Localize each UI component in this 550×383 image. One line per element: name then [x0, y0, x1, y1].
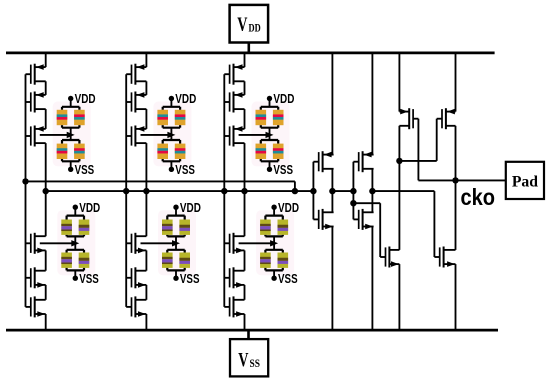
svg-text:VSS: VSS	[278, 272, 298, 286]
svg-text:VDD: VDD	[79, 201, 100, 215]
svg-text:VDD: VDD	[75, 92, 96, 106]
svg-text:V: V	[237, 13, 248, 35]
svg-text:V: V	[238, 349, 249, 371]
svg-text:Pad: Pad	[512, 173, 538, 190]
svg-text:VSS: VSS	[75, 163, 95, 177]
svg-text:VSS: VSS	[79, 272, 99, 286]
svg-text:VSS: VSS	[180, 272, 200, 286]
svg-text:VSS: VSS	[175, 163, 195, 177]
svg-text:VDD: VDD	[175, 92, 196, 106]
svg-text:DD: DD	[249, 20, 261, 34]
svg-text:VDD: VDD	[278, 201, 299, 215]
svg-text:VDD: VDD	[273, 92, 294, 106]
svg-text:cko: cko	[461, 184, 496, 210]
svg-text:VSS: VSS	[273, 163, 293, 177]
svg-text:SS: SS	[250, 356, 261, 370]
svg-text:VDD: VDD	[180, 201, 201, 215]
